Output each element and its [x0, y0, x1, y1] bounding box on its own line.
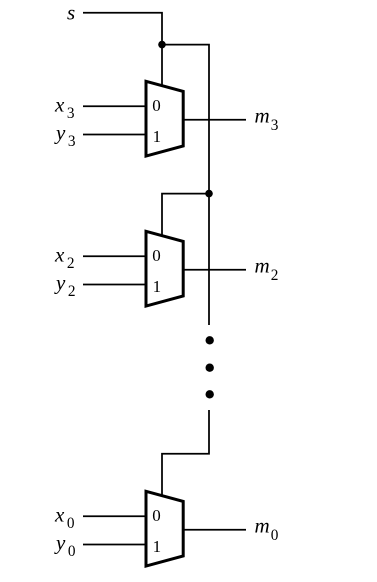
- wire output m2: [182, 269, 246, 271]
- wire input x2: [83, 255, 147, 257]
- wire input y2: [83, 284, 147, 286]
- svg-text:x: x: [54, 92, 65, 116]
- wire s horizontal then down to mux U3 select: [83, 13, 162, 87]
- wire output m3: [182, 119, 246, 121]
- wire vertical continuing below second junction: [208, 194, 210, 325]
- svg-text:1: 1: [153, 127, 162, 146]
- svg-text:x: x: [54, 242, 65, 266]
- svg-text:y: y: [54, 121, 66, 145]
- svg-text:m: m: [255, 253, 270, 277]
- wire output m0: [182, 529, 246, 531]
- svg-text:2: 2: [271, 267, 279, 284]
- ellipsis dot 2: [206, 364, 214, 372]
- wire resuming below ellipsis to mux U0 select: [162, 410, 209, 497]
- svg-text:2: 2: [67, 255, 75, 272]
- svg-text:m: m: [255, 103, 270, 127]
- wire input x3: [83, 105, 147, 107]
- svg-text:s: s: [67, 0, 75, 24]
- junction dot on s line: [158, 41, 166, 49]
- svg-text:0: 0: [68, 543, 76, 560]
- wire branch left from second junction down to mux U2 select: [162, 194, 209, 237]
- wire input x0: [83, 515, 147, 517]
- multiplexer U3: [146, 81, 183, 156]
- wire branch right from junction down to second junction: [162, 45, 209, 194]
- svg-text:y: y: [54, 271, 66, 295]
- svg-text:x: x: [54, 502, 65, 526]
- svg-text:y: y: [54, 531, 66, 555]
- svg-text:0: 0: [271, 527, 279, 544]
- junction dot second: [205, 190, 213, 198]
- svg-text:3: 3: [68, 133, 76, 150]
- wire input y0: [83, 544, 147, 546]
- svg-text:0: 0: [152, 96, 161, 115]
- multiplexer U2: [146, 231, 183, 306]
- svg-text:m: m: [255, 513, 270, 537]
- svg-text:0: 0: [67, 515, 75, 532]
- svg-text:2: 2: [68, 283, 76, 300]
- multiplexer U0: [146, 491, 183, 566]
- svg-text:1: 1: [153, 277, 162, 296]
- svg-text:0: 0: [152, 246, 161, 265]
- ellipsis dot 3: [206, 390, 214, 398]
- svg-text:3: 3: [67, 105, 75, 122]
- svg-text:1: 1: [153, 537, 162, 556]
- svg-text:0: 0: [152, 506, 161, 525]
- svg-text:3: 3: [271, 117, 279, 134]
- ellipsis dot 1: [206, 336, 214, 344]
- wire input y3: [83, 134, 147, 136]
